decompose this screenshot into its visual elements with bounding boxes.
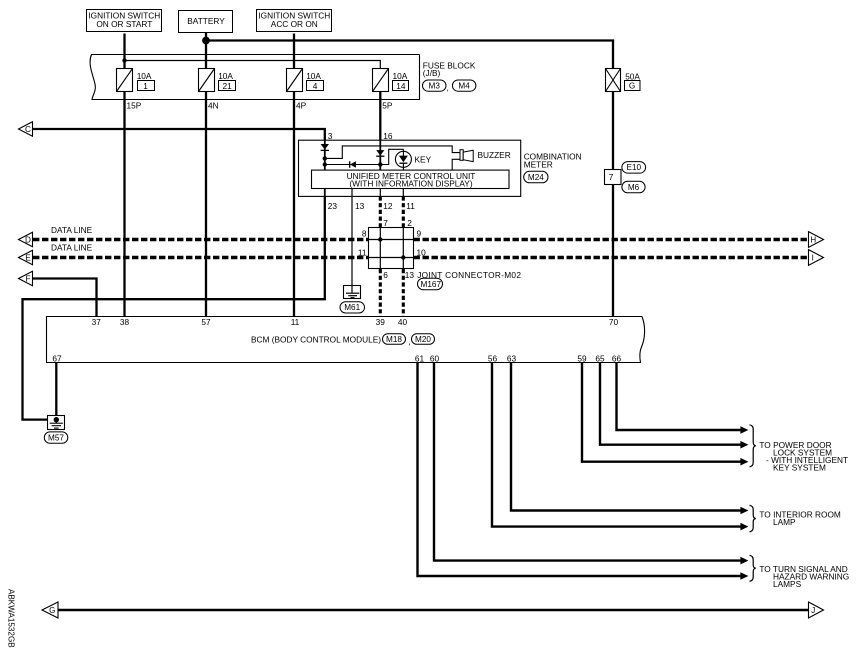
svg-text:LAMPS: LAMPS	[773, 579, 802, 589]
arrow C (to preceding page)	[19, 122, 33, 136]
svg-text:4: 4	[313, 81, 318, 91]
svg-text:65: 65	[595, 353, 605, 363]
wire: ign on/start to fuse 1	[123, 34, 125, 69]
svg-text:57: 57	[201, 317, 211, 327]
svg-text:DATA LINE: DATA LINE	[51, 225, 93, 235]
ground M61	[344, 286, 361, 299]
wire: meter pin 3 internal	[324, 140, 326, 170]
fuse 10A [4]	[287, 69, 303, 92]
joint connector M02 box	[369, 228, 414, 269]
svg-text:C: C	[25, 125, 31, 134]
arrow E (data line to next page)	[19, 250, 33, 264]
arrow F	[19, 271, 33, 285]
buzzer symbol	[460, 150, 463, 161]
svg-text:10A: 10A	[137, 71, 152, 81]
brace: power door lock group	[750, 425, 756, 467]
pin 15P of fuse block	[127, 101, 393, 111]
svg-text:(J/B): (J/B)	[423, 68, 441, 78]
svg-text:11: 11	[358, 247, 367, 257]
svg-text:61: 61	[415, 353, 425, 363]
shielded wire: meter pin 11 to joint connector pin 2	[402, 196, 405, 228]
arrow I (right edge, data line)	[809, 250, 824, 266]
svg-text:,: ,	[408, 336, 410, 346]
svg-text:I: I	[812, 253, 814, 262]
wire: diode link between pin3 and pin16 branches	[325, 164, 381, 166]
BCM top pin labels	[92, 317, 619, 327]
svg-text:5P: 5P	[382, 101, 393, 111]
label: TO TURN SIGNAL AND HAZARD WARNING LAMPS	[759, 564, 849, 589]
svg-text:M6: M6	[628, 183, 640, 192]
svg-text:60: 60	[430, 353, 440, 363]
wire: KEY lamp to control unit	[402, 149, 404, 170]
junction: pin3/buzzer branch	[323, 156, 327, 160]
brace: turn signal group	[750, 555, 756, 581]
wire: BCM pin 63 to interior room lamp	[511, 363, 741, 511]
svg-text:7: 7	[383, 218, 388, 228]
label: FUSE BLOCK (J/B) with connectors M3 , M4	[423, 60, 476, 92]
data line E to joint connector pin 11 (CAN-L)	[33, 256, 369, 260]
svg-text:70: 70	[609, 317, 619, 327]
svg-text:METER: METER	[524, 159, 553, 169]
svg-text:ON OR START: ON OR START	[96, 19, 152, 29]
svg-text:12: 12	[383, 201, 393, 211]
svg-text:4P: 4P	[296, 101, 307, 111]
connector E10/M6 pin 7	[605, 170, 622, 185]
svg-text:1: 1	[143, 81, 148, 91]
arrow D (data line to next page)	[19, 232, 33, 246]
wire: meter pin 13 to ground M61	[351, 196, 353, 285]
svg-text:E10: E10	[627, 163, 642, 172]
diode D1 on pin 3 line	[321, 144, 329, 150]
joint connector internal line pin8-pin9	[369, 239, 414, 241]
wire: fuse 4 (4P) down to BCM pin 11	[293, 92, 295, 316]
wire: BCM pin 56 to interior room lamp	[492, 363, 741, 527]
wire: fuse 14 (5P) down to meter pin 16	[379, 92, 381, 140]
wire: fusible link to connector E10/M6	[612, 92, 614, 169]
svg-text:H: H	[810, 235, 816, 244]
svg-text:ABKWA1532GB: ABKWA1532GB	[7, 589, 16, 648]
svg-text:6: 6	[383, 270, 388, 280]
svg-text:F: F	[25, 274, 30, 283]
svg-text:16: 16	[383, 131, 393, 141]
pin 23 label of meter	[328, 201, 415, 211]
label: TO INTERIOR ROOM LAMP	[759, 510, 841, 528]
svg-text:KEY SYSTEM: KEY SYSTEM	[773, 463, 826, 473]
svg-text:10: 10	[417, 247, 427, 257]
wire: BCM pin 61 to turn signal lamps	[418, 363, 741, 576]
svg-text:63: 63	[507, 353, 517, 363]
svg-text:M3: M3	[429, 81, 441, 90]
unified meter control unit box	[312, 170, 510, 188]
svg-text:BCM (BODY CONTROL MODULE): BCM (BODY CONTROL MODULE)	[251, 334, 381, 344]
svg-text:,: ,	[447, 83, 449, 93]
svg-text:7: 7	[609, 172, 614, 182]
junction: branch at fuse 1 feed	[122, 58, 126, 62]
fusible link 50A [G]	[606, 69, 621, 92]
arrow G (bottom left)	[42, 602, 58, 618]
svg-text:11: 11	[291, 317, 300, 327]
svg-text:M167: M167	[421, 280, 442, 289]
svg-text:59: 59	[577, 353, 587, 363]
svg-text:10A: 10A	[218, 71, 233, 81]
svg-text:37: 37	[92, 317, 102, 327]
KEY warning lamp (LED in circle)	[395, 151, 411, 167]
svg-text:13: 13	[355, 201, 365, 211]
wire: branch to buzzer (upper loop)	[325, 146, 460, 159]
document code ABKWA1532GB (vertical)	[7, 589, 16, 648]
svg-text:10A: 10A	[393, 71, 408, 81]
meter internal pin stubs	[324, 189, 326, 196]
svg-text:TO INTERIOR ROOM: TO INTERIOR ROOM	[759, 510, 841, 520]
svg-text:14: 14	[396, 81, 406, 91]
arrow H (right edge, data line)	[809, 232, 824, 248]
connector box: IGNITION SWITCH ACC OR ON	[257, 10, 332, 32]
svg-text:13: 13	[405, 270, 415, 280]
wire: fuse 21 (4N) down to BCM pin 57	[205, 92, 207, 316]
junction: pin3/diode branch	[323, 162, 327, 166]
shielded wire: meter pin 12 to joint connector pin 7	[379, 196, 382, 228]
svg-text:M24: M24	[528, 173, 544, 182]
svg-text:M20: M20	[415, 335, 431, 344]
fuse 10A [14]	[373, 69, 389, 92]
BCM bottom pin labels	[52, 353, 621, 363]
svg-text:4N: 4N	[208, 101, 219, 111]
svg-text:G: G	[629, 81, 635, 90]
ground M57	[48, 416, 65, 430]
svg-text:40: 40	[398, 317, 408, 327]
svg-text:LAMP: LAMP	[773, 517, 796, 527]
junction: battery feed	[202, 37, 210, 45]
svg-text:DATA LINE: DATA LINE	[51, 243, 93, 253]
svg-text:M4: M4	[458, 81, 470, 90]
fuse 10A [21]	[199, 69, 215, 92]
wire: battery to fuse 21	[205, 33, 207, 69]
svg-text:M18: M18	[386, 335, 402, 344]
svg-text:15P: 15P	[127, 101, 142, 111]
data line D to joint connector pin 8 (CAN-H)	[33, 238, 369, 242]
label DATA LINE (upper)	[51, 225, 93, 253]
svg-text:23: 23	[328, 201, 338, 211]
wire: meter pin 23 to ground M57	[23, 196, 325, 419]
svg-text:56: 56	[488, 353, 498, 363]
joint connector internal line pin2-pin13	[402, 228, 404, 269]
svg-text:21: 21	[222, 81, 232, 91]
diode D2 on pin 16 line	[376, 150, 384, 155]
wire: BCM pin 67 to ground M57	[55, 363, 57, 420]
wire: buzzer lower terminal to control unit	[452, 159, 460, 170]
svg-text:KEY: KEY	[415, 154, 432, 164]
data line joint connector pin 9 to arrow H (CAN-H)	[414, 238, 809, 242]
shielded wire: joint connector pin 13 to BCM pin 40	[402, 269, 405, 316]
svg-text:39: 39	[376, 317, 386, 327]
junction: CAN-L at joint connector	[401, 255, 405, 259]
svg-text:M57: M57	[48, 433, 64, 442]
shielded wire: joint connector pin 6 to BCM pin 39	[379, 269, 382, 316]
connector box: IGNITION SWITCH ON OR START	[87, 10, 162, 32]
svg-text:BUZZER: BUZZER	[478, 150, 511, 160]
svg-text:ACC OR ON: ACC OR ON	[271, 19, 318, 29]
wire: fuse 1 (15P) down to BCM pin 38	[123, 92, 125, 316]
svg-text:2: 2	[407, 218, 412, 228]
wire: from arrow C to meter pin 3	[33, 129, 325, 140]
diode D3 pointing left on link wire	[350, 161, 356, 168]
fuse block (J/B) outline with break on left edge	[90, 55, 419, 100]
svg-text:38: 38	[120, 317, 130, 327]
joint connector internal line pin11-pin10	[369, 257, 414, 259]
fuse 10A [1]	[117, 69, 133, 92]
wire: branch to KEY lamp	[380, 149, 403, 164]
connector box: BATTERY	[179, 11, 233, 33]
svg-text:E: E	[25, 253, 31, 262]
svg-text:J: J	[811, 606, 815, 615]
svg-text:M61: M61	[344, 303, 360, 312]
brace: interior room lamp group	[750, 505, 756, 532]
wire: bottom bus G to J	[58, 609, 809, 611]
arrow J (bottom right)	[809, 602, 824, 618]
svg-text:67: 67	[52, 353, 62, 363]
svg-text:11: 11	[406, 201, 415, 211]
wire: connector M6 down to BCM pin 70	[612, 185, 614, 316]
wire: battery feed to 50A fusible link	[206, 41, 614, 69]
wire: BCM pin 65 to power door lock system	[600, 363, 741, 445]
BCM (body control module) box with break on right edge	[47, 317, 645, 363]
wire: arrow F to BCM pin 37	[33, 279, 97, 317]
branch wire inside fuse block from fuse 1 feed to fuse 14	[125, 61, 381, 69]
svg-text:BATTERY: BATTERY	[187, 16, 225, 26]
svg-text:10A: 10A	[306, 71, 321, 81]
wire: ign acc to fuse 4	[293, 34, 295, 69]
svg-text:8: 8	[362, 229, 367, 239]
svg-text:G: G	[49, 606, 55, 615]
svg-text:50A: 50A	[625, 71, 640, 81]
junction: CAN-H at joint connector	[378, 237, 382, 241]
wire: BCM pin 66 to power door lock system	[617, 363, 741, 430]
svg-text:D: D	[25, 235, 31, 244]
svg-text:3: 3	[328, 131, 333, 141]
joint connector internal line pin7-pin6	[379, 228, 381, 269]
data line joint connector pin 10 to arrow I (CAN-L)	[414, 256, 809, 260]
svg-text:(WITH INFORMATION DISPLAY): (WITH INFORMATION DISPLAY)	[349, 179, 472, 189]
label: TO POWER DOOR LOCK SYSTEM	[759, 440, 848, 473]
svg-text:9: 9	[417, 229, 422, 239]
pin 3 label of combination meter	[328, 131, 393, 141]
pin labels of joint connector	[358, 218, 521, 280]
wire: BCM pin 59 to power door lock system	[582, 363, 741, 462]
junction: pin16 branch	[378, 162, 382, 166]
svg-text:66: 66	[612, 353, 622, 363]
wire: meter pin 16 internal	[379, 140, 381, 170]
combination meter outer box	[299, 140, 521, 196]
label: COMBINATION METER with connector M24	[524, 152, 582, 170]
wire: BCM pin 60 to turn signal lamps	[434, 363, 741, 561]
